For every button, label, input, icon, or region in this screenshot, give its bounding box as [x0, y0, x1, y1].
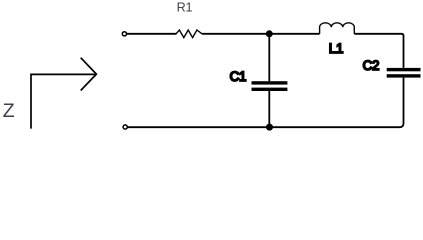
svg-text:L1: L1	[329, 41, 343, 56]
resistor R1	[176, 30, 202, 38]
capacitor C1	[252, 81, 288, 91]
wire bottom	[128, 126, 400, 128]
svg-text:C1: C1	[230, 69, 247, 84]
svg-text:Z: Z	[3, 100, 15, 122]
inductor L1	[320, 23, 355, 34]
wire C2 to bottom-right corner	[400, 78, 404, 128]
wire node A down to C1	[268, 34, 270, 81]
impedance arrow	[31, 74, 96, 128]
svg-text:R1: R1	[177, 1, 193, 15]
node A (top junction)	[266, 30, 273, 37]
wire C1 to node B	[268, 91, 270, 127]
terminal bottom-left	[123, 125, 127, 129]
node B (bottom junction)	[266, 124, 273, 131]
capacitor C2	[387, 68, 421, 78]
wire resistor to inductor (through node A)	[202, 33, 320, 35]
terminal top-left	[122, 32, 126, 36]
wire inductor to top-right corner	[354, 34, 403, 68]
wire top-left to resistor	[127, 33, 177, 35]
svg-text:C2: C2	[363, 58, 380, 73]
